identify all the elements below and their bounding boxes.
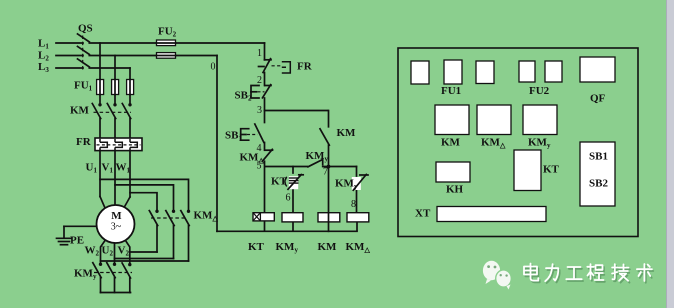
- FR actuator dashed link: [272, 65, 282, 67]
- wire delta link W1: [130, 193, 157, 211]
- switch QS pole 1 blade: [78, 34, 90, 42]
- wire U2 from motor: [114, 243, 116, 263]
- wires through fuses: [100, 43, 176, 95]
- wire L3 in: [56, 67, 83, 69]
- node 7 junction: [327, 165, 331, 169]
- char shu: [637, 264, 652, 281]
- coil KM-star: [282, 213, 303, 232]
- panel XT terminal bar: [437, 207, 546, 222]
- KM-star linkage dashed: [94, 272, 132, 274]
- control rail from L1: [259, 43, 272, 86]
- KM-delta linkage dashed: [151, 217, 185, 219]
- svg-text:6: 6: [286, 193, 291, 204]
- thermal relay FR box: [95, 138, 142, 151]
- coil KM: [318, 213, 340, 222]
- svg-text:FR: FR: [297, 61, 313, 73]
- scrollbar strip: [666, 0, 674, 308]
- panel KH relay: [436, 162, 470, 182]
- svg-text:KT: KT: [248, 241, 265, 253]
- labels control section: [225, 61, 370, 255]
- pushbutton SB2 NC: [251, 85, 271, 111]
- wire V1 to motor: [114, 151, 116, 206]
- svg-text:7: 7: [323, 167, 328, 178]
- svg-text:KT: KT: [543, 164, 560, 176]
- wechat logo: [483, 261, 511, 290]
- char gong: [566, 267, 581, 279]
- svg-text:M: M: [111, 210, 122, 222]
- contact FR NC: [265, 59, 272, 61]
- contact KM-star NC horizontal: [308, 159, 357, 167]
- svg-text:1: 1: [257, 48, 262, 59]
- svg-text:KM: KM: [441, 137, 461, 149]
- neutral rail 0: [217, 56, 357, 232]
- fuse FU1 phase V: [112, 80, 119, 95]
- panel QF breaker: [580, 57, 615, 82]
- svg-text:KM: KM: [318, 241, 338, 253]
- svg-text:QF: QF: [590, 93, 606, 105]
- panel FU1 fuse 3: [476, 61, 494, 84]
- contact KM-star NC on delta branch: [356, 167, 358, 213]
- star point bar: [101, 292, 131, 294]
- wire phase W drop: [129, 68, 131, 104]
- svg-text:QS: QS: [78, 23, 93, 35]
- fuse FU1 phase W: [127, 80, 134, 95]
- switch QS linkage dashed: [82, 36, 84, 73]
- svg-text:5: 5: [257, 161, 262, 172]
- wire L1 in: [56, 42, 83, 44]
- panel KM-delta contactor: [477, 105, 511, 135]
- svg-text:8: 8: [351, 199, 356, 210]
- wire L1 bus to control rail: [89, 42, 264, 44]
- char li: [545, 264, 558, 281]
- contactor KM main contacts: [92, 104, 130, 139]
- panel FU2 fuse 1: [519, 61, 535, 82]
- contact KT delayed: [292, 167, 294, 213]
- contact KM-delta NC interlock: [262, 149, 272, 212]
- node 3 wire to KM branch: [265, 110, 329, 112]
- svg-text:4: 4: [257, 143, 262, 154]
- FR actuator bracket: [282, 62, 291, 73]
- wire delta to V2: [130, 251, 157, 253]
- panel FU2 fuse 2: [545, 61, 562, 82]
- contactor KM-delta contacts: [149, 211, 189, 261]
- wire delta link U1: [100, 179, 189, 210]
- node 5 wire: [265, 166, 309, 168]
- wire delta to U2: [115, 258, 174, 260]
- panel FU1 fuse 1: [411, 61, 429, 84]
- wire L3 stub: [89, 67, 130, 69]
- svg-text:3: 3: [257, 105, 262, 116]
- panel KT timer: [514, 150, 541, 191]
- wire phase V drop: [114, 56, 116, 105]
- svg-text:KH: KH: [446, 184, 464, 196]
- coil KT: [253, 213, 274, 232]
- char cheng: [587, 264, 603, 280]
- wire delta link V1: [115, 185, 174, 211]
- svg-text:3~: 3~: [111, 222, 122, 233]
- node numbers: [211, 48, 357, 210]
- wire phase U drop: [99, 43, 101, 104]
- wire L2 in: [56, 55, 83, 57]
- svg-text:SB2: SB2: [589, 178, 608, 190]
- panel FU1 fuse 2: [444, 60, 462, 84]
- svg-text:2: 2: [257, 75, 262, 86]
- pushbutton SB1 NO: [241, 111, 265, 151]
- switch QS pole 3 blade: [78, 59, 90, 67]
- panel SB buttons: [580, 142, 615, 206]
- svg-text:PE: PE: [70, 235, 84, 247]
- ground PE: [57, 226, 97, 244]
- fuse FU1 phase U: [97, 80, 104, 95]
- svg-text:KM: KM: [337, 127, 357, 139]
- watermark text shadow: [525, 265, 653, 283]
- svg-text:XT: XT: [415, 208, 431, 220]
- svg-text:0: 0: [211, 62, 216, 73]
- coil KM-delta: [347, 213, 369, 232]
- KM main linkage dashed: [94, 111, 132, 113]
- switch QS pole 2 blade: [78, 46, 90, 54]
- char dian: [524, 264, 538, 281]
- watermark text dian li gong cheng ji shu: [524, 264, 652, 282]
- panel KM contactor: [435, 105, 469, 135]
- svg-text:KT: KT: [271, 176, 288, 188]
- wire V2 from motor: [126, 241, 130, 264]
- motor M: [97, 205, 135, 243]
- contactor KM-star contacts: [93, 263, 131, 293]
- wire W1 to motor: [129, 151, 131, 197]
- svg-text:FU1: FU1: [441, 85, 461, 97]
- wire U1 to motor: [99, 151, 101, 197]
- panel labels: [415, 85, 608, 220]
- svg-text:FR: FR: [76, 136, 92, 148]
- fuse FU2 upper: [157, 40, 176, 46]
- wire W2 from motor: [101, 241, 106, 264]
- panel KM-star contactor: [523, 105, 557, 135]
- wire L2 bus to neutral rail: [89, 55, 217, 57]
- contact KM NO self-hold: [320, 111, 329, 232]
- svg-text:FU2: FU2: [529, 85, 550, 97]
- labels power section: [38, 23, 218, 281]
- fuse FU2 lower: [157, 53, 176, 59]
- char ji: [612, 264, 628, 281]
- panel layout box: [398, 48, 638, 237]
- svg-text:SB1: SB1: [589, 151, 608, 163]
- wire delta to W2: [101, 260, 189, 262]
- svg-text:KM: KM: [70, 105, 90, 117]
